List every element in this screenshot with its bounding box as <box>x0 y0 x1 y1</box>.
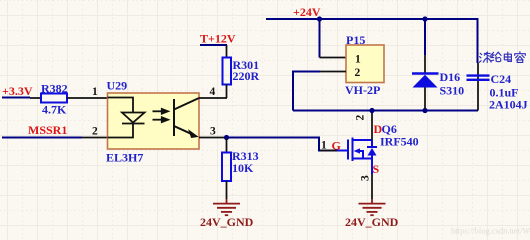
LED inside U29 <box>108 98 145 138</box>
svg-text:4: 4 <box>210 86 216 98</box>
svg-text:3: 3 <box>210 126 216 138</box>
svg-text:2: 2 <box>355 115 367 121</box>
phototransistor inside U29 <box>174 98 199 136</box>
svg-text:U29: U29 <box>107 79 128 93</box>
wire +24V top rail <box>266 19 478 63</box>
svg-text:C24: C24 <box>491 72 512 86</box>
node junction drain <box>369 108 374 113</box>
svg-text:S: S <box>373 162 380 176</box>
transistor Q2 body (MOSFET Q6 IRF540) <box>337 138 377 162</box>
capacitor C24 <box>477 63 479 111</box>
substrate arrow head <box>354 148 361 153</box>
svg-text:1: 1 <box>355 54 361 66</box>
svg-text:+24V: +24V <box>293 5 321 19</box>
svg-text:https://blog.csdn.net/W: https://blog.csdn.net/W <box>451 226 530 236</box>
wire bottom rail <box>293 110 478 112</box>
svg-text:T+12V: T+12V <box>200 32 236 46</box>
op-amp U29 body (optocoupler EL3H7) <box>108 93 200 149</box>
svg-text:220R: 220R <box>233 69 260 83</box>
resistor R301 <box>226 45 228 58</box>
svg-text:2: 2 <box>355 67 361 79</box>
connector P15 body <box>346 45 384 83</box>
pin 2 lead <box>82 137 108 139</box>
svg-text:4.7K: 4.7K <box>42 103 67 117</box>
svg-text:IRF540: IRF540 <box>380 135 419 149</box>
wire R301 to pin4 <box>226 85 228 99</box>
resistor R313 <box>226 138 228 153</box>
coupling arrows <box>153 109 169 122</box>
wire R313 to ground <box>226 181 228 199</box>
svg-text:1: 1 <box>321 140 327 152</box>
node junction P15 <box>317 16 322 21</box>
svg-text:S310: S310 <box>440 84 465 98</box>
svg-text:D16: D16 <box>440 70 461 84</box>
wire pin3 to gate <box>227 138 338 151</box>
ground 24V_GND (right) <box>359 199 386 215</box>
resistor R382 <box>30 97 41 99</box>
svg-text:1: 1 <box>92 86 98 98</box>
svg-text:2A104J: 2A104J <box>489 98 528 112</box>
node pin3 junction <box>224 135 229 140</box>
svg-text:24V_GND: 24V_GND <box>200 215 254 229</box>
pin 3 lead <box>199 137 227 139</box>
svg-text:MSSR1: MSSR1 <box>28 123 67 137</box>
diode D16 S310 <box>424 19 426 55</box>
wire +24V to P15 pin1 <box>319 19 321 58</box>
drain lead pin 2 <box>371 111 373 140</box>
svg-text:VH-2P: VH-2P <box>345 83 380 97</box>
value label 涤纶电容 (polyester capacitor, drawn strokes) <box>479 52 525 63</box>
source lead pin 3 <box>371 159 373 175</box>
svg-text:P15: P15 <box>346 33 365 47</box>
wire R382 to pin1 <box>67 97 108 99</box>
svg-text:3: 3 <box>360 175 372 181</box>
svg-text:R382: R382 <box>41 82 68 96</box>
body diode of Q6 <box>368 148 377 156</box>
node junction D16 top <box>422 16 427 21</box>
ground 24V_GND (left) <box>213 199 240 215</box>
pin 4 lead <box>199 97 227 99</box>
svg-text:24V_GND: 24V_GND <box>345 215 399 229</box>
svg-text:EL3H7: EL3H7 <box>106 151 143 165</box>
svg-text:2: 2 <box>92 126 98 138</box>
wire MSSR1 <box>2 137 82 139</box>
wire P15 pin2 to bottom rail <box>320 71 346 73</box>
wire +3.3V stub <box>2 97 30 99</box>
svg-text:10K: 10K <box>232 161 254 175</box>
svg-text:+3.3V: +3.3V <box>2 84 33 98</box>
node junction D16 bottom <box>422 108 427 113</box>
